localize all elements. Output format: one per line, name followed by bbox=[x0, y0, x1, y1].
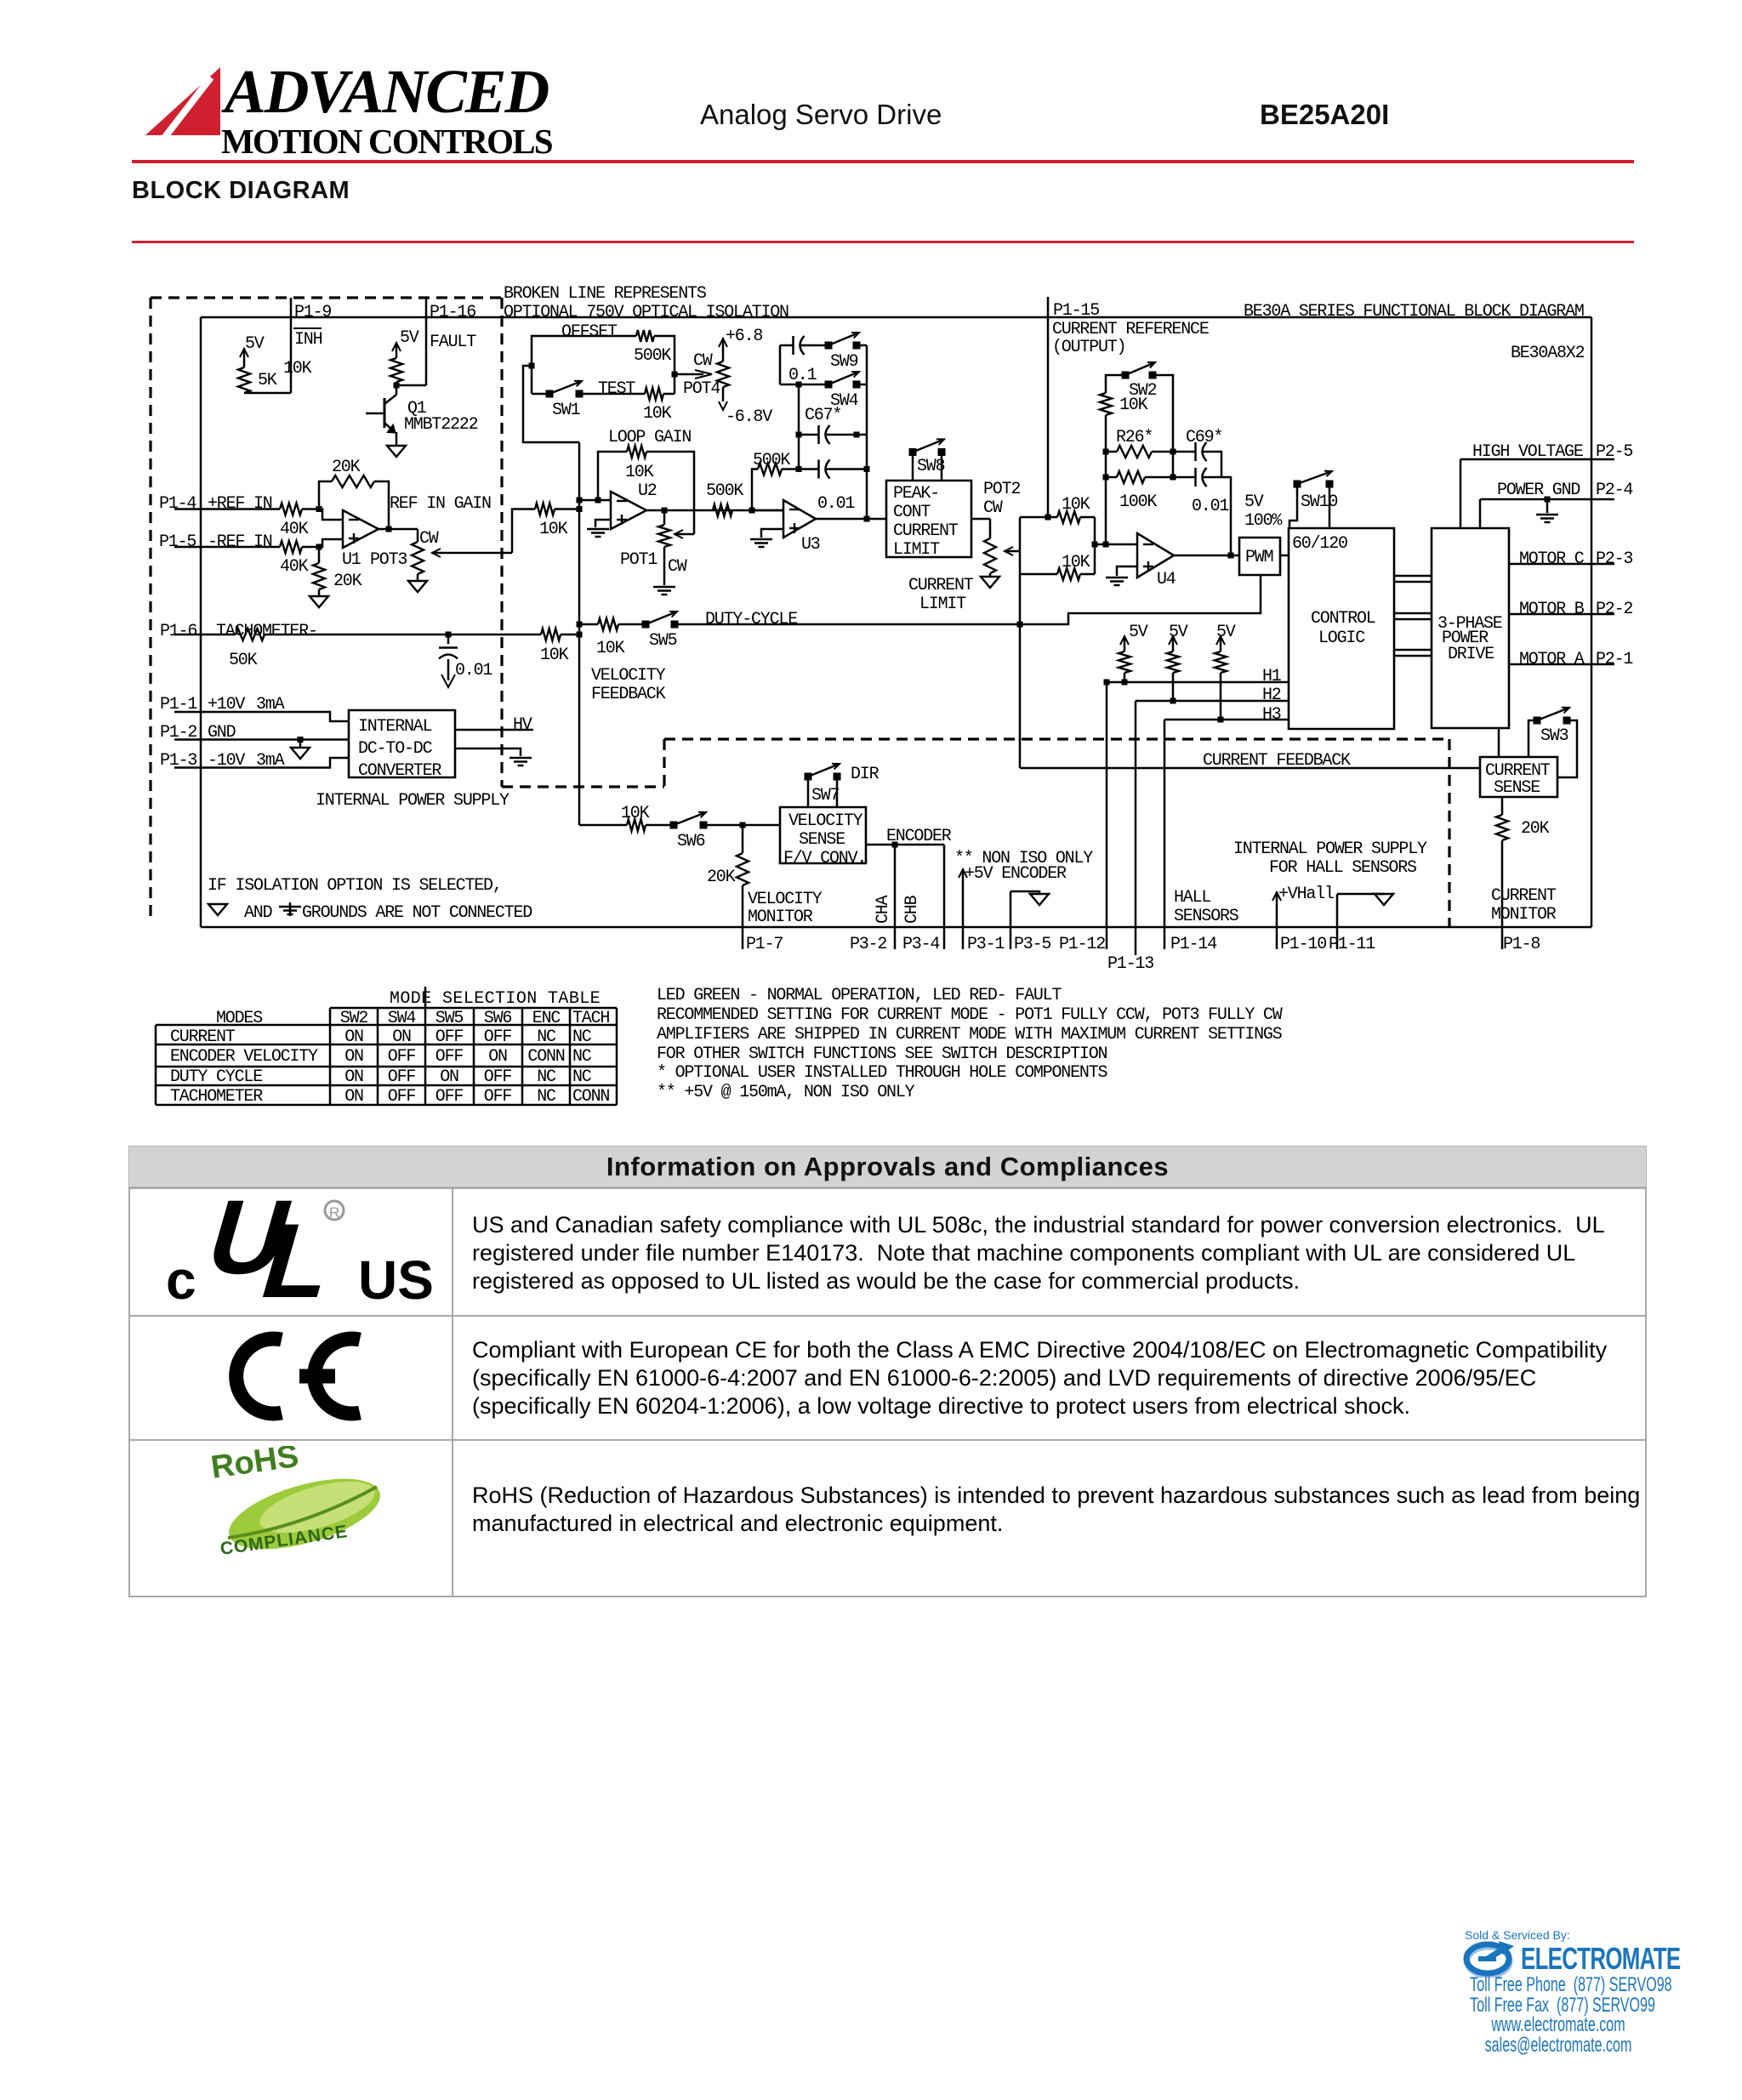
svg-text:0.01: 0.01 bbox=[817, 494, 855, 514]
svg-text:0.01: 0.01 bbox=[1192, 497, 1229, 516]
wire to U1 inverting input bbox=[302, 508, 319, 510]
resistor 100K bbox=[1106, 476, 1117, 479]
switch SW3 bbox=[1534, 717, 1541, 725]
svg-text:SW4: SW4 bbox=[388, 1009, 416, 1028]
svg-text:REF IN GAIN: REF IN GAIN bbox=[390, 494, 491, 514]
svg-text:NC: NC bbox=[537, 1087, 556, 1107]
potentiometer POT4 +6.8/-6.8V bbox=[717, 361, 729, 387]
RoHS logo bbox=[202, 1446, 390, 1565]
wire PWM to control logic bbox=[1280, 555, 1289, 557]
resistor 10K tach bbox=[541, 629, 561, 640]
svg-text:FAULT: FAULT bbox=[430, 333, 476, 352]
svg-text:P1-13: P1-13 bbox=[1107, 954, 1153, 974]
switch SW2 bbox=[1122, 372, 1130, 379]
svg-text:SW4: SW4 bbox=[830, 391, 858, 411]
wire ladder right rail bbox=[866, 345, 868, 519]
svg-text:500K: 500K bbox=[706, 481, 743, 501]
svg-text:DUTY CYCLE: DUTY CYCLE bbox=[170, 1067, 262, 1087]
section heading bbox=[132, 177, 350, 205]
svg-text:F/V CONV.: F/V CONV. bbox=[783, 849, 866, 868]
ground U3 non-inverting bbox=[761, 529, 783, 538]
svg-text:LOGIC: LOGIC bbox=[1318, 629, 1365, 648]
ground U4 non-inverting bbox=[1117, 566, 1137, 576]
resistor 20K feedback U1 bbox=[319, 481, 332, 509]
wire 5K to INH bbox=[244, 392, 291, 395]
block peak-cont current limit bbox=[886, 481, 971, 557]
svg-text:TACHOMETER: TACHOMETER bbox=[170, 1087, 263, 1107]
svg-text:OFF: OFF bbox=[388, 1067, 416, 1087]
svg-text:P3-1: P3-1 bbox=[967, 935, 1005, 954]
header part number bbox=[1260, 99, 1389, 131]
svg-text:H3: H3 bbox=[1262, 705, 1281, 725]
svg-text:DUTY-CYCLE: DUTY-CYCLE bbox=[705, 610, 797, 629]
svg-text:CW: CW bbox=[419, 529, 439, 549]
svg-text:ON: ON bbox=[440, 1067, 458, 1087]
svg-text:+REF IN: +REF IN bbox=[208, 494, 272, 514]
header logo Advanced Motion Controls bbox=[136, 60, 578, 170]
wire U2 inverting input bbox=[579, 499, 611, 502]
svg-text:R: R bbox=[329, 1204, 339, 1221]
svg-text:MOTOR C: MOTOR C bbox=[1519, 549, 1585, 569]
svg-text:SW9: SW9 bbox=[830, 352, 858, 372]
svg-text:POT3: POT3 bbox=[370, 550, 407, 570]
svg-text:CW: CW bbox=[983, 498, 1003, 518]
svg-text:PWM: PWM bbox=[1245, 548, 1273, 567]
resistor 50K bbox=[236, 629, 265, 640]
svg-text:OPTIONAL 750V OPTICAL ISOLATIO: OPTIONAL 750V OPTICAL ISOLATION bbox=[504, 303, 788, 322]
svg-text:20K: 20K bbox=[707, 868, 736, 887]
header center title bbox=[700, 99, 942, 131]
svg-text:CW: CW bbox=[693, 351, 713, 371]
svg-text:100K: 100K bbox=[1119, 492, 1157, 512]
resistor 10K SW2 bbox=[1100, 393, 1112, 415]
svg-text:CONTROL: CONTROL bbox=[1311, 609, 1375, 629]
potentiometer POT2 bbox=[989, 519, 992, 538]
svg-text:TACHOMETER-: TACHOMETER- bbox=[216, 622, 317, 641]
switch SW1 bbox=[546, 390, 554, 398]
svg-text:OFF: OFF bbox=[388, 1087, 416, 1107]
svg-text:U2: U2 bbox=[638, 481, 657, 501]
heading red rule bbox=[132, 241, 1634, 243]
svg-text:POWER GND: POWER GND bbox=[1497, 481, 1580, 500]
svg-text:RECOMMENDED SETTING FOR CURREN: RECOMMENDED SETTING FOR CURRENT MODE - P… bbox=[657, 1005, 1283, 1025]
svg-text:10K: 10K bbox=[596, 639, 625, 658]
svg-text:LOOP GAIN: LOOP GAIN bbox=[608, 428, 691, 447]
svg-text:SENSE: SENSE bbox=[799, 830, 845, 850]
resistor R26* bbox=[1106, 451, 1117, 453]
svg-text:TEST: TEST bbox=[598, 379, 635, 399]
svg-text:CHA: CHA bbox=[874, 895, 893, 924]
svg-text:INTERNAL: INTERNAL bbox=[358, 717, 432, 737]
svg-text:P1-12: P1-12 bbox=[1059, 935, 1105, 954]
svg-text:LIMIT: LIMIT bbox=[919, 595, 966, 614]
block control logic bbox=[1289, 528, 1394, 729]
svg-text:P1-14: P1-14 bbox=[1170, 935, 1216, 954]
svg-text:* OPTIONAL USER INSTALLED THRO: * OPTIONAL USER INSTALLED THROUGH HOLE C… bbox=[657, 1063, 1107, 1083]
op-amp U2 bbox=[611, 492, 646, 529]
ground at P1-2 bbox=[299, 740, 302, 748]
svg-text:100%: 100% bbox=[1244, 511, 1283, 531]
circuit schematic bbox=[0, 0, 1742, 1131]
svg-text:SW7: SW7 bbox=[811, 786, 840, 805]
svg-text:LIMIT: LIMIT bbox=[893, 540, 940, 560]
svg-text:OFFSET: OFFSET bbox=[561, 322, 618, 342]
svg-text:NC: NC bbox=[572, 1027, 592, 1047]
svg-text:LED GREEN - NORMAL OPERATION,: LED GREEN - NORMAL OPERATION, LED RED- F… bbox=[657, 986, 1062, 1005]
resistor 20K to ground bbox=[318, 547, 321, 563]
svg-text:NC: NC bbox=[572, 1067, 592, 1087]
svg-text:OFF: OFF bbox=[435, 1027, 464, 1047]
wire SW1 branch to U2 input bbox=[523, 366, 579, 442]
svg-text:PEAK-: PEAK- bbox=[893, 484, 939, 504]
svg-text:P1-7: P1-7 bbox=[746, 935, 783, 954]
svg-text:P1-10: P1-10 bbox=[1280, 935, 1326, 954]
block PWM bbox=[1239, 538, 1280, 575]
svg-text:NC: NC bbox=[537, 1027, 556, 1047]
svg-text:CONT: CONT bbox=[893, 503, 931, 522]
svg-text:c: c bbox=[166, 1249, 196, 1306]
svg-text:OFF: OFF bbox=[435, 1047, 464, 1067]
svg-text:ON: ON bbox=[344, 1027, 363, 1047]
svg-text:MOTOR B: MOTOR B bbox=[1519, 600, 1585, 619]
wire U3 output bbox=[816, 518, 886, 521]
wire to POT2 bbox=[971, 518, 990, 521]
svg-text:HV: HV bbox=[513, 715, 532, 735]
svg-text:CW: CW bbox=[668, 557, 687, 577]
svg-text:OFF: OFF bbox=[484, 1067, 512, 1087]
svg-text:RoHS: RoHS bbox=[208, 1446, 300, 1486]
svg-text:CONVERTER: CONVERTER bbox=[358, 761, 441, 781]
rail X1 bbox=[1019, 517, 1022, 768]
svg-text:VELOCITY: VELOCITY bbox=[591, 666, 666, 686]
svg-text:10K: 10K bbox=[283, 359, 312, 378]
op-amp U3 bbox=[752, 509, 783, 512]
ground below POT2 bbox=[981, 577, 999, 588]
optical isolation dashed boundary bbox=[149, 298, 151, 916]
UL logo bbox=[166, 1195, 438, 1306]
svg-text:ON: ON bbox=[344, 1087, 363, 1107]
svg-text:CURRENT: CURRENT bbox=[908, 576, 974, 595]
wiper arrow POT1 bbox=[675, 533, 694, 536]
approvals text row 2 bbox=[472, 1336, 1607, 1420]
svg-text:NC: NC bbox=[572, 1047, 592, 1067]
wire fault node bbox=[396, 382, 398, 393]
svg-text:BROKEN LINE REPRESENTS: BROKEN LINE REPRESENTS bbox=[504, 284, 707, 304]
svg-text:POT1: POT1 bbox=[620, 550, 658, 570]
svg-text:AMPLIFIERS ARE SHIPPED IN CURR: AMPLIFIERS ARE SHIPPED IN CURRENT MODE W… bbox=[657, 1025, 1283, 1044]
resistor 10K upper U4 bbox=[1020, 516, 1057, 519]
svg-text:10K: 10K bbox=[625, 463, 654, 482]
svg-text:OFF: OFF bbox=[484, 1027, 512, 1047]
svg-text:OFF: OFF bbox=[435, 1087, 464, 1107]
svg-text:ENCODER VELOCITY: ENCODER VELOCITY bbox=[170, 1047, 318, 1067]
ground power gnd bbox=[1546, 499, 1549, 513]
svg-text:** +5V @ 150mA, NON ISO ONLY: ** +5V @ 150mA, NON ISO ONLY bbox=[657, 1083, 915, 1102]
svg-text:P1-16: P1-16 bbox=[430, 303, 475, 322]
svg-text:0.01: 0.01 bbox=[455, 661, 492, 680]
resistor 10K U2 input bbox=[535, 504, 555, 515]
node P1-16 FAULT output bbox=[425, 298, 428, 385]
block current sense bbox=[1480, 757, 1557, 797]
svg-text:VELOCITY: VELOCITY bbox=[748, 890, 823, 909]
svg-text:5V: 5V bbox=[1129, 623, 1148, 642]
ground below POT1 bbox=[653, 586, 675, 589]
svg-text:MODES: MODES bbox=[216, 1009, 263, 1028]
svg-text:SW10: SW10 bbox=[1301, 492, 1337, 512]
svg-text:5V: 5V bbox=[1244, 492, 1264, 512]
svg-text:10K: 10K bbox=[643, 404, 672, 424]
svg-text:SW1: SW1 bbox=[552, 401, 581, 420]
velocity feedback rail bbox=[578, 442, 581, 825]
switch SW4 row bbox=[780, 384, 828, 386]
resistor 10K SW6 bbox=[579, 824, 627, 827]
svg-text:POT2: POT2 bbox=[983, 480, 1020, 499]
resistor 10K test bbox=[579, 393, 645, 396]
svg-text:SW8: SW8 bbox=[917, 457, 945, 476]
switch SW8 bbox=[912, 452, 914, 481]
wire SW2 right bbox=[1153, 375, 1173, 477]
wire to 500K feedback row bbox=[752, 470, 758, 511]
transistor Q1 MMBT2222 bbox=[384, 398, 386, 428]
capacitor 0.01 tach filter bbox=[447, 635, 450, 644]
svg-text:+6.8: +6.8 bbox=[726, 327, 762, 346]
svg-text:NC: NC bbox=[537, 1067, 556, 1087]
svg-text:C69*: C69* bbox=[1186, 428, 1222, 447]
wire POT3 wiper to U2 input bbox=[512, 509, 535, 554]
capacitor 0.01 U4 feedback bbox=[1194, 468, 1197, 487]
resistor 10K loop gain feedback bbox=[598, 452, 627, 500]
op-amp U4 bbox=[1137, 533, 1174, 578]
approvals text row 1 bbox=[472, 1211, 1605, 1295]
wire U4 output to PWM bbox=[1174, 555, 1239, 557]
wire U1 output bbox=[379, 528, 418, 531]
CE logo bbox=[219, 1327, 373, 1429]
resistor 20K velocity monitor bbox=[742, 825, 744, 853]
capacitor C67* bbox=[799, 434, 818, 436]
svg-text:5V: 5V bbox=[400, 328, 419, 348]
potentiometer POT1 bbox=[663, 510, 666, 525]
header red rule bbox=[132, 160, 1634, 163]
svg-text:US: US bbox=[358, 1249, 434, 1306]
capacitor 0.01 U3 feedback bbox=[817, 460, 820, 479]
svg-text:FOR OTHER SWITCH FUNCTIONS SEE: FOR OTHER SWITCH FUNCTIONS SEE SWITCH DE… bbox=[657, 1044, 1107, 1064]
ground U2 non-inverting bbox=[595, 520, 611, 527]
bus control to power drive bbox=[1394, 575, 1432, 578]
svg-text:ON: ON bbox=[392, 1027, 411, 1047]
svg-text:H2: H2 bbox=[1262, 686, 1281, 705]
svg-text:10K: 10K bbox=[1062, 553, 1090, 572]
svg-text:60/120: 60/120 bbox=[1292, 534, 1347, 554]
block internal DC-to-DC converter bbox=[349, 710, 455, 777]
svg-text:10K: 10K bbox=[621, 804, 650, 823]
svg-text:P1-15: P1-15 bbox=[1053, 301, 1099, 321]
wire HV output bbox=[455, 729, 533, 731]
svg-text:10K: 10K bbox=[540, 646, 569, 665]
resistor 500K U2-U3 bbox=[713, 504, 732, 516]
svg-text:FEEDBACK: FEEDBACK bbox=[591, 685, 666, 704]
approvals text row 3 bbox=[472, 1482, 1640, 1538]
svg-text:SW3: SW3 bbox=[1540, 726, 1568, 746]
svg-text:ON: ON bbox=[344, 1047, 363, 1067]
resistor 500K U3 feedback bbox=[758, 464, 782, 475]
svg-text:AND: AND bbox=[244, 903, 272, 923]
svg-text:INTERNAL POWER SUPPLY: INTERNAL POWER SUPPLY bbox=[316, 791, 510, 811]
node P1-10 +VHall bbox=[1276, 892, 1278, 927]
svg-text:P2-1: P2-1 bbox=[1596, 650, 1633, 669]
svg-text:P3-5: P3-5 bbox=[1014, 935, 1050, 954]
svg-text:VELOCITY: VELOCITY bbox=[788, 811, 863, 831]
ground HV side bbox=[510, 757, 532, 760]
svg-text:FOR HALL SENSORS: FOR HALL SENSORS bbox=[1269, 858, 1417, 878]
svg-text:U3: U3 bbox=[801, 535, 820, 555]
svg-text:20K: 20K bbox=[332, 458, 361, 477]
wire offset to POT4 bbox=[677, 373, 703, 376]
svg-text:10K: 10K bbox=[1062, 495, 1090, 515]
svg-text:0.1: 0.1 bbox=[788, 366, 817, 385]
svg-text:MMBT2222: MMBT2222 bbox=[404, 415, 478, 435]
svg-text:U1: U1 bbox=[342, 550, 361, 570]
footer electromate block bbox=[1465, 1928, 1570, 1942]
svg-text:P1-4: P1-4 bbox=[159, 494, 196, 514]
svg-text:MONITOR: MONITOR bbox=[1491, 905, 1557, 925]
svg-text:10K: 10K bbox=[1119, 396, 1148, 415]
svg-text:ON: ON bbox=[488, 1047, 507, 1067]
resistor 20K current monitor bbox=[1501, 797, 1504, 815]
svg-text:SW6: SW6 bbox=[677, 832, 705, 851]
svg-text:SW5: SW5 bbox=[435, 1009, 464, 1028]
rail C67 column bbox=[798, 384, 800, 470]
node P3-5 encoder ground bbox=[1010, 891, 1039, 894]
svg-text:-6.8V: -6.8V bbox=[726, 407, 772, 427]
svg-text:P1-11: P1-11 bbox=[1329, 935, 1375, 954]
svg-text:P3-2: P3-2 bbox=[850, 935, 886, 954]
wire power drive to current sense bbox=[1498, 728, 1500, 757]
svg-text:SENSORS: SENSORS bbox=[1174, 907, 1239, 926]
svg-text:CONN: CONN bbox=[572, 1087, 609, 1107]
svg-text:CURRENT: CURRENT bbox=[170, 1027, 236, 1047]
svg-text:P2-4: P2-4 bbox=[1596, 481, 1632, 500]
svg-text:P1-6: P1-6 bbox=[160, 622, 196, 641]
op-amp U1 bbox=[343, 510, 379, 548]
wire to U1 non-inverting input bbox=[302, 546, 319, 549]
svg-text:U4: U4 bbox=[1157, 570, 1176, 589]
svg-text:5K: 5K bbox=[258, 371, 277, 390]
node P1-15 current reference bbox=[1047, 297, 1050, 517]
svg-text:40K: 40K bbox=[280, 520, 309, 539]
svg-text:INTERNAL POWER SUPPLY: INTERNAL POWER SUPPLY bbox=[1233, 839, 1427, 859]
svg-text:DIR: DIR bbox=[851, 765, 880, 784]
electromate swirl logo bbox=[1460, 1940, 1521, 1978]
svg-text:CURRENT REFERENCE: CURRENT REFERENCE bbox=[1052, 320, 1209, 339]
svg-text:BE30A8X2: BE30A8X2 bbox=[1511, 344, 1585, 363]
svg-text:SW6: SW6 bbox=[484, 1009, 512, 1028]
svg-text:MOTOR A: MOTOR A bbox=[1519, 650, 1585, 669]
svg-text:SENSE: SENSE bbox=[1494, 778, 1540, 798]
svg-text:P1-8: P1-8 bbox=[1503, 935, 1540, 954]
svg-text:HALL: HALL bbox=[1174, 888, 1210, 908]
svg-text:MONITOR: MONITOR bbox=[748, 908, 813, 927]
svg-text:-REF IN: -REF IN bbox=[208, 532, 272, 552]
svg-text:10K: 10K bbox=[539, 520, 568, 539]
node P1-11 hall ground bbox=[1337, 893, 1384, 896]
switch SW7 DIR bbox=[807, 777, 810, 807]
ground below Q1 bbox=[387, 446, 406, 457]
block 3-phase power drive bbox=[1432, 528, 1509, 728]
svg-text:OFF: OFF bbox=[484, 1087, 512, 1107]
svg-text:20K: 20K bbox=[1521, 819, 1550, 839]
svg-text:BE30A SERIES FUNCTIONAL BLOC: BE30A SERIES FUNCTIONAL BLOCK DIAGRAM bbox=[1244, 302, 1584, 322]
svg-text:P1-9: P1-9 bbox=[294, 303, 331, 322]
wire tach node bbox=[265, 634, 541, 636]
resistor 10K duty bbox=[579, 623, 598, 626]
svg-text:OFF: OFF bbox=[388, 1047, 416, 1067]
wire ladder left rail bbox=[779, 345, 782, 384]
svg-text:MODE SELECTION TABLE: MODE SELECTION TABLE bbox=[390, 989, 601, 1009]
wire U2 output bbox=[646, 509, 783, 512]
svg-text:DC-TO-DC: DC-TO-DC bbox=[358, 739, 433, 759]
svg-text:500K: 500K bbox=[753, 451, 790, 470]
block velocity sense F/V converter bbox=[780, 807, 866, 863]
svg-text:50K: 50K bbox=[229, 651, 258, 670]
svg-text:40K: 40K bbox=[280, 557, 309, 577]
svg-text:ON: ON bbox=[344, 1067, 363, 1087]
schematic frame bbox=[201, 316, 1591, 319]
svg-text:5V: 5V bbox=[245, 334, 265, 354]
potentiometer POT3 bbox=[417, 529, 419, 542]
switch SW6 bbox=[670, 822, 678, 829]
svg-text:CURRENT: CURRENT bbox=[893, 521, 959, 541]
svg-text:P3-4: P3-4 bbox=[902, 935, 939, 954]
resistor 10K lower U4 bbox=[1020, 573, 1057, 576]
ground below 20K bbox=[310, 596, 328, 607]
svg-text:P2-3: P2-3 bbox=[1596, 549, 1632, 569]
wire PWM bottom duty cycle bbox=[675, 575, 1261, 624]
ground below POT3 bbox=[417, 574, 419, 581]
svg-text:(OUTPUT): (OUTPUT) bbox=[1052, 338, 1125, 357]
svg-text:CHB: CHB bbox=[902, 895, 922, 924]
svg-text:500K: 500K bbox=[634, 346, 671, 366]
node P1-9 INH input bbox=[290, 298, 293, 393]
resistor 500K offset bbox=[636, 330, 654, 342]
svg-text:+VHall: +VHall bbox=[1278, 885, 1334, 904]
non-iso dashed boundary bbox=[502, 785, 664, 788]
capacitor 0.1 and SW9 row bbox=[780, 344, 793, 347]
svg-text:P1-5: P1-5 bbox=[159, 532, 196, 552]
svg-text:GROUNDS ARE NOT CONNECTED: GROUNDS ARE NOT CONNECTED bbox=[302, 903, 532, 923]
svg-text:SW2: SW2 bbox=[340, 1009, 368, 1028]
svg-text:INH: INH bbox=[294, 330, 322, 350]
svg-text:POT4: POT4 bbox=[683, 379, 720, 399]
svg-text:IF ISOLATION OPTION IS SELECTE: IF ISOLATION OPTION IS SELECTED, bbox=[208, 876, 502, 896]
switch SW10 bbox=[1294, 481, 1301, 488]
svg-text:+5V ENCODER: +5V ENCODER bbox=[965, 864, 1067, 884]
wire U4 inverting input bbox=[1094, 517, 1096, 574]
svg-text:DRIVE: DRIVE bbox=[1448, 645, 1494, 664]
svg-text:SW5: SW5 bbox=[649, 631, 677, 651]
svg-text:20K: 20K bbox=[333, 572, 362, 591]
svg-text:H1: H1 bbox=[1262, 667, 1282, 686]
switch SW5 bbox=[642, 621, 650, 629]
svg-text:CONN: CONN bbox=[527, 1047, 564, 1067]
svg-text:TACH: TACH bbox=[572, 1009, 609, 1028]
svg-text:P2-2: P2-2 bbox=[1596, 600, 1632, 619]
capacitor C69* bbox=[1173, 451, 1195, 453]
resistor 40K lower bbox=[280, 541, 302, 553]
svg-text:ENC: ENC bbox=[532, 1009, 561, 1028]
svg-text:R26*: R26* bbox=[1116, 428, 1153, 447]
svg-text:CURRENT: CURRENT bbox=[1491, 886, 1557, 906]
wire converter ground bbox=[455, 748, 521, 756]
